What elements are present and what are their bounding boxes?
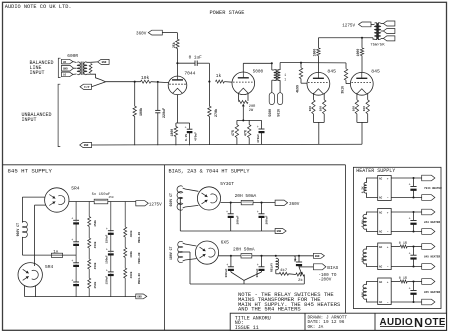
svg-text:3k16: 3k16 bbox=[340, 86, 344, 94]
capacitor 150uF bank2-3 bbox=[106, 269, 114, 276]
label 20H 50mA a bbox=[235, 193, 257, 199]
svg-text:+: + bbox=[409, 184, 411, 188]
node dot heater 1b bbox=[412, 196, 414, 198]
resistor 3k16 grid2 bbox=[344, 63, 347, 84]
heater transformer winding 2 bbox=[363, 212, 378, 232]
svg-text:4k99: 4k99 bbox=[295, 85, 299, 93]
svg-text:6.3V: 6.3V bbox=[361, 186, 364, 193]
wire heater top 1 bbox=[391, 177, 422, 179]
bracket unbalanced input bbox=[58, 84, 60, 146]
node dot heater 3b bbox=[412, 265, 414, 267]
label 400k bank2-2 bbox=[129, 251, 133, 258]
label 5616 bbox=[276, 109, 280, 117]
wire 6X5 out bbox=[219, 255, 241, 257]
resistor 25k anode load bbox=[176, 39, 179, 48]
connector tag GND input bbox=[98, 59, 110, 64]
capacitor 150uF bank2-1 bbox=[106, 228, 114, 235]
wire bias V down bbox=[243, 280, 245, 284]
wire bias rail bbox=[237, 119, 262, 121]
wire cathode rail bbox=[176, 122, 190, 124]
svg-text:-: - bbox=[387, 197, 389, 201]
label 25k bbox=[172, 42, 176, 48]
svg-text:845 HT SUPPLY: 845 HT SUPPLY bbox=[8, 168, 53, 175]
label 470uF bias bbox=[257, 134, 260, 143]
capacitor 0.1uF coupling bbox=[177, 56, 209, 66]
svg-text:1: 1 bbox=[284, 73, 286, 77]
valve 845 V3 bbox=[307, 72, 330, 95]
valve 7044 V1 bbox=[168, 76, 187, 95]
heater transformer winding 1 bbox=[364, 178, 378, 198]
svg-text:-200V: -200V bbox=[318, 277, 331, 282]
label heater volts 4 bbox=[361, 292, 364, 297]
svg-text:AC: AC bbox=[379, 177, 383, 180]
node dot heater 2b bbox=[412, 230, 414, 232]
hum pot 20R 2W bbox=[239, 93, 248, 104]
wire 5R4b top bbox=[34, 205, 36, 266]
resistor 1k grid stopper bbox=[216, 73, 225, 83]
connector tag balanced gnd bbox=[62, 65, 74, 71]
svg-text:100: 100 bbox=[352, 106, 355, 112]
wire pot to bus bbox=[303, 275, 305, 285]
wire winding ct down bbox=[180, 198, 182, 231]
svg-text:100uF: 100uF bbox=[236, 215, 239, 224]
node dot input/100k bbox=[134, 81, 136, 83]
svg-text:+: + bbox=[71, 279, 73, 283]
heater transformer winding 3 bbox=[363, 247, 378, 267]
bridge rectifier 2 bbox=[378, 209, 392, 235]
title block frame bbox=[230, 313, 446, 330]
svg-text:180V CT: 180V CT bbox=[169, 247, 173, 260]
capacitor 40uF bias bbox=[295, 256, 303, 267]
svg-text:+: + bbox=[71, 260, 73, 264]
connector tag heater 1 bottom bbox=[422, 195, 435, 201]
svg-text:PB01-88: PB01-88 bbox=[138, 252, 141, 263]
bridge rectifier 3 bbox=[378, 243, 392, 270]
wire I/P to node bbox=[92, 82, 106, 87]
resistor 1000 plate1 bbox=[317, 38, 320, 73]
svg-text:0 1uF: 0 1uF bbox=[189, 56, 203, 61]
svg-text:1000: 1000 bbox=[313, 49, 317, 57]
wire heater bottom 2 bbox=[391, 231, 422, 233]
wire mains down a bbox=[21, 197, 23, 223]
svg-text:660V CT: 660V CT bbox=[169, 193, 173, 206]
svg-text:AC: AC bbox=[379, 231, 383, 234]
node dot plate junction bbox=[176, 62, 178, 64]
svg-text:OK: JA: OK: JA bbox=[308, 325, 324, 330]
connector tag speaker 1 bbox=[381, 21, 395, 26]
svg-text:+: + bbox=[226, 264, 228, 268]
wire ground bus bbox=[92, 143, 363, 146]
wire grid bus 845 bbox=[280, 62, 346, 64]
rectifier 5R4 V5 bbox=[45, 188, 69, 212]
bracket balanced input bbox=[58, 58, 60, 77]
node dot heater 4b bbox=[412, 301, 414, 303]
connector tag 1275V supply bbox=[136, 201, 162, 208]
wire 5Y3 plate a bbox=[183, 188, 199, 191]
capacitor 100uF hta bbox=[226, 203, 234, 231]
label heater volts 1 bbox=[361, 186, 364, 193]
output transformer secondary bbox=[377, 23, 380, 40]
svg-text:+: + bbox=[409, 252, 411, 256]
connector tag heater 3 top bbox=[422, 244, 435, 250]
wire OPT primary bottom bbox=[373, 38, 375, 39]
filter column riser C1 bbox=[75, 202, 77, 297]
transformer winding 660V bbox=[177, 186, 183, 210]
svg-text:ISSUE 11: ISSUE 11 bbox=[235, 325, 259, 331]
svg-text:450k: 450k bbox=[93, 281, 97, 288]
svg-text:100k: 100k bbox=[139, 108, 144, 116]
transformer T1 primary bbox=[77, 62, 80, 75]
svg-text:+: + bbox=[409, 218, 411, 222]
valve 845 V4 bbox=[350, 72, 373, 95]
svg-text:AC: AC bbox=[379, 211, 383, 214]
svg-text:N: N bbox=[414, 316, 423, 330]
capacitor 150uF bank2-2 bbox=[106, 249, 114, 256]
fuse 1A bbox=[51, 251, 62, 258]
svg-text:1A: 1A bbox=[53, 251, 59, 255]
wire heater bottom 1 bbox=[391, 197, 422, 199]
label 5Y3GT bbox=[220, 181, 234, 187]
svg-text:5R4: 5R4 bbox=[45, 264, 54, 270]
title block text mid bbox=[308, 316, 348, 330]
wire 10k to grid bbox=[151, 81, 169, 84]
connector tag heater 2 top bbox=[422, 209, 435, 215]
capacitor 150uF bank1-3 bbox=[71, 260, 79, 267]
label 5600 bbox=[268, 109, 272, 117]
wire 4k7 to pot bbox=[289, 273, 296, 276]
svg-text:75W/5K: 75W/5K bbox=[370, 42, 385, 47]
resistor 450k bank1-3 bbox=[86, 259, 93, 269]
svg-text:1000: 1000 bbox=[356, 49, 360, 57]
svg-text:AC: AC bbox=[379, 197, 383, 200]
label 2A3 HEATER 2 bbox=[424, 221, 441, 224]
svg-text:AUDIO NOTE CO UK LTD.: AUDIO NOTE CO UK LTD. bbox=[5, 4, 72, 10]
node dot interstage top bbox=[271, 62, 273, 64]
wire HT bottom bus bbox=[25, 296, 136, 298]
resistor 0.1R 3 bbox=[399, 242, 407, 248]
label POWER STAGE bbox=[210, 10, 245, 16]
label heater volts 2 bbox=[361, 220, 364, 227]
transformer T1 secondary bbox=[84, 62, 87, 75]
svg-text:845: 845 bbox=[371, 69, 380, 75]
label 5000 bbox=[253, 69, 264, 74]
valve 2A3 V2 bbox=[232, 72, 255, 95]
svg-text:270k: 270k bbox=[214, 109, 219, 117]
wire grid1 bbox=[301, 82, 307, 84]
svg-text:GND: GND bbox=[137, 296, 142, 299]
wire heater top 4b bbox=[407, 281, 422, 283]
label 150uF bank2-3 bbox=[105, 276, 108, 285]
svg-text:PB01-88: PB01-88 bbox=[138, 273, 141, 284]
label 845 HT SUPPLY bbox=[8, 168, 53, 175]
wire ht gnd bus bbox=[180, 230, 275, 232]
svg-text:360V: 360V bbox=[136, 31, 147, 36]
label -200V bbox=[318, 277, 331, 282]
label BIAS 2A3 7044 HT SUPPLY bbox=[169, 169, 251, 175]
label 4k99 bbox=[295, 85, 299, 93]
svg-text:20H 50mA: 20H 50mA bbox=[233, 246, 255, 252]
svg-text:INPUT: INPUT bbox=[22, 117, 37, 123]
damping pill 5616 bbox=[278, 80, 283, 104]
label 1000 plate2 bbox=[356, 49, 360, 57]
relay coil bbox=[276, 258, 279, 269]
resistor 47R a bbox=[235, 120, 238, 144]
resistor 0.1R 4 bbox=[399, 277, 407, 283]
resistor 400k bank2-2 bbox=[122, 248, 129, 258]
svg-text:HEATER SUPPLY: HEATER SUPPLY bbox=[356, 168, 395, 174]
wire input line bbox=[106, 81, 141, 83]
svg-text:GND: GND bbox=[102, 61, 107, 64]
resistor 400k bank2-1 bbox=[122, 227, 129, 237]
svg-text:+: + bbox=[387, 211, 389, 214]
wire bias bottom bus bbox=[190, 283, 304, 285]
svg-text:AC: AC bbox=[379, 266, 383, 269]
svg-text:AC: AC bbox=[379, 301, 383, 304]
resistor 100 c1b bbox=[323, 93, 326, 123]
svg-text:RELAY: RELAY bbox=[271, 263, 274, 272]
bridge rectifier 1 bbox=[378, 176, 392, 201]
interstage transformer secondary bbox=[278, 63, 281, 81]
resistor 270k grid leak bbox=[208, 82, 211, 145]
wire plate V1 riser bbox=[176, 63, 178, 76]
svg-text:600R: 600R bbox=[67, 53, 78, 59]
connector tag GND bus bbox=[80, 142, 92, 147]
svg-text:47R: 47R bbox=[243, 130, 247, 136]
svg-text:360V: 360V bbox=[289, 202, 300, 207]
wire relay to 4k7 bbox=[276, 269, 279, 273]
label 845 V3 bbox=[327, 69, 336, 75]
resistor 100 c2b bbox=[366, 93, 369, 123]
label 150uF bank2-1 bbox=[105, 234, 108, 243]
wire 5Y3 out bbox=[221, 202, 242, 204]
connector tag speaker 2 bbox=[381, 29, 395, 34]
section divider vertical B/C bbox=[344, 165, 346, 313]
heater supply box bbox=[353, 167, 441, 308]
svg-text:+: + bbox=[387, 246, 389, 249]
capacitor 100uF bias a bbox=[226, 256, 234, 272]
label 3k16 bbox=[340, 86, 344, 94]
label 47R a bbox=[231, 130, 235, 136]
resistor 10k bbox=[141, 80, 151, 83]
svg-text:GND: GND bbox=[63, 67, 68, 70]
capacitor heater 4 bbox=[409, 282, 417, 303]
wire HT top bus b bbox=[108, 201, 136, 203]
label 5R4 V6 bbox=[45, 264, 54, 270]
title AUDIO NOTE CO UK LTD bbox=[5, 4, 72, 10]
transformer winding 180V bbox=[178, 241, 183, 262]
capacitor heater 2 bbox=[409, 212, 417, 232]
wire tag2 to transformer bbox=[74, 67, 77, 69]
resistor 100 c2a bbox=[355, 93, 358, 123]
svg-text:1k: 1k bbox=[216, 73, 222, 79]
svg-text:+: + bbox=[185, 127, 187, 131]
svg-text:1275V: 1275V bbox=[149, 202, 162, 207]
connector tag heater 4 bottom bbox=[422, 299, 435, 305]
resistor 450k bank1-4 bbox=[86, 278, 93, 288]
output transformer primary bbox=[375, 23, 378, 40]
svg-text:400k: 400k bbox=[129, 230, 133, 237]
label 20R 2W bbox=[249, 105, 256, 113]
svg-text:10V: 10V bbox=[361, 292, 364, 297]
wire cathode join V3 bbox=[313, 122, 324, 144]
transformer HT winding bbox=[22, 221, 27, 237]
wire HT top bus a bbox=[69, 201, 94, 203]
svg-text:POWER STAGE: POWER STAGE bbox=[210, 10, 245, 16]
svg-text:+: + bbox=[106, 269, 108, 273]
label 100uF htb bbox=[265, 215, 268, 224]
label 450k bank1-3 bbox=[93, 262, 97, 269]
node dot biascap bbox=[298, 255, 300, 257]
svg-text:5000: 5000 bbox=[253, 69, 264, 74]
svg-text:845 HEATER: 845 HEATER bbox=[424, 256, 441, 259]
svg-text:GND: GND bbox=[84, 144, 89, 147]
connector tag 1275V power bbox=[342, 22, 371, 29]
svg-text:LO: LO bbox=[63, 74, 67, 77]
filter column riser R2 bbox=[124, 202, 126, 297]
capacitor 150uF bank1-1 bbox=[71, 218, 79, 225]
resistor 4k7 bbox=[279, 268, 288, 275]
svg-text:+: + bbox=[387, 177, 389, 180]
resistor 10k label bbox=[141, 75, 150, 81]
capacitor 150uF bank1-2 bbox=[71, 239, 79, 246]
resistor 1000 plate2 bbox=[360, 38, 363, 73]
label partno bank2-3 bbox=[138, 273, 141, 284]
label 1000 plate1 bbox=[313, 49, 317, 57]
resistor 4k99 grid1 bbox=[299, 63, 302, 83]
wire 1275V to OPT bbox=[371, 23, 375, 25]
svg-text:25k: 25k bbox=[172, 42, 176, 48]
capacitor 100uF bias b bbox=[257, 256, 265, 272]
label heater volts 3 bbox=[361, 257, 364, 262]
svg-text:845: 845 bbox=[327, 69, 336, 75]
svg-text:BIAS, 2A3 & 7044 HT SUPPLY: BIAS, 2A3 & 7044 HT SUPPLY bbox=[169, 169, 251, 175]
svg-text:5600: 5600 bbox=[268, 109, 272, 117]
section divider vertical A/B bbox=[163, 165, 165, 330]
svg-text:100uF: 100uF bbox=[256, 268, 259, 277]
svg-text:5616: 5616 bbox=[276, 109, 280, 117]
wire heater top 4a bbox=[391, 281, 400, 283]
resistor 1800 cathode bbox=[174, 123, 177, 145]
connector tag GND ht bbox=[275, 229, 286, 234]
wire mains down b bbox=[21, 237, 23, 255]
node dot heater 2a bbox=[412, 211, 414, 213]
wire heater top 3a bbox=[391, 246, 400, 248]
svg-text:+: + bbox=[226, 211, 228, 215]
wire HT rail 845 bbox=[318, 37, 373, 39]
node dot grid node 2A3 bbox=[208, 81, 210, 83]
wire secondary bottom to switch bbox=[91, 74, 101, 80]
svg-text:5Y3GT: 5Y3GT bbox=[220, 181, 234, 187]
label 6X5 bbox=[221, 240, 230, 246]
svg-text:BIAS: BIAS bbox=[327, 265, 338, 271]
pot wiper arrow bbox=[242, 104, 245, 121]
svg-text:470uF: 470uF bbox=[257, 134, 260, 143]
svg-text:845 HEATER: 845 HEATER bbox=[424, 291, 441, 294]
label 1:1 bbox=[284, 73, 286, 82]
label 400k bank2-1 bbox=[129, 230, 133, 237]
wire cathode join V4 bbox=[357, 122, 368, 144]
label 75W/5K bbox=[370, 42, 385, 47]
filter column riser C3 bbox=[110, 202, 112, 297]
resistor input termination bbox=[87, 62, 92, 74]
svg-text:450k: 450k bbox=[93, 262, 97, 269]
label RELAY bbox=[271, 263, 274, 272]
label 100 c2b bbox=[363, 106, 366, 112]
note text bbox=[238, 291, 341, 312]
label 100 c1b bbox=[320, 106, 323, 112]
connector tag heater 1 top bbox=[422, 175, 435, 181]
svg-text:7044: 7044 bbox=[184, 71, 195, 77]
interstage transformer core bbox=[276, 69, 278, 81]
node dot cap2 bbox=[260, 255, 262, 257]
label 845 HEATER 3 bbox=[424, 256, 441, 259]
logo AUDIO NOTE bbox=[380, 316, 446, 330]
svg-text:2k: 2k bbox=[298, 278, 303, 283]
capacitor 150uF bank1-4 bbox=[71, 279, 79, 286]
svg-text:-: - bbox=[387, 301, 389, 305]
resistor 47R b bbox=[248, 120, 251, 144]
wire heater bottom 3 bbox=[391, 266, 422, 268]
wire bias V join bbox=[231, 272, 262, 280]
svg-text:10V: 10V bbox=[361, 257, 364, 262]
wire grid2 bbox=[346, 83, 350, 85]
node dot 5Y3 out bbox=[230, 202, 232, 204]
capacitor 470uF bias bbox=[257, 120, 265, 144]
svg-text:+: + bbox=[257, 211, 259, 215]
node dot heater 1a bbox=[412, 177, 414, 179]
wire 360V to plate resistor bbox=[162, 33, 177, 40]
svg-text:150uF: 150uF bbox=[105, 276, 108, 285]
label 270k bbox=[214, 109, 219, 117]
wire tag3 to transformer bbox=[73, 73, 77, 75]
wire secondary top to gnd tag bbox=[91, 61, 98, 63]
heater transformer winding 4 bbox=[363, 282, 378, 303]
svg-text:1800: 1800 bbox=[170, 129, 174, 137]
label 450k bank1-1 bbox=[93, 220, 97, 227]
svg-text:PB01-88: PB01-88 bbox=[138, 232, 141, 243]
interstage transformer primary bbox=[272, 63, 277, 80]
resistor 450k bank1-2 bbox=[86, 238, 93, 248]
connector tag I/P bbox=[80, 84, 92, 89]
svg-text:150uF: 150uF bbox=[105, 255, 108, 264]
wire plate V2 riser bbox=[242, 63, 244, 72]
wire plate bus to interstage bbox=[243, 62, 271, 64]
svg-text:I/P: I/P bbox=[84, 85, 90, 89]
filter column riser R1 bbox=[88, 202, 90, 297]
svg-text:+: + bbox=[257, 264, 259, 268]
label 100 c1a bbox=[309, 106, 312, 112]
label partno bank2-2 bbox=[138, 252, 141, 263]
node dot grid bus r1 bbox=[300, 62, 302, 64]
label 845 HEATER 4 bbox=[424, 291, 441, 294]
label 960V CT bbox=[16, 223, 20, 236]
svg-text:7044 HEATER: 7044 HEATER bbox=[424, 187, 442, 190]
label 1800 bbox=[170, 129, 174, 137]
svg-text:1: 1 bbox=[284, 78, 286, 82]
svg-text:100uF: 100uF bbox=[225, 268, 228, 277]
connector tag BIAS bbox=[313, 264, 338, 271]
connector tag balanced - bbox=[62, 72, 74, 77]
label partno bank2-1 bbox=[138, 232, 141, 243]
svg-text:2.5V: 2.5V bbox=[361, 220, 364, 227]
svg-text:AC: AC bbox=[379, 246, 383, 249]
wire 5R4b bottom pins bbox=[25, 286, 36, 297]
connector tag 360V supply bbox=[275, 200, 300, 207]
label 100 c2a bbox=[352, 106, 355, 112]
label 220uF bbox=[163, 108, 167, 118]
label HEATER SUPPLY bbox=[356, 168, 395, 174]
svg-text:5R4: 5R4 bbox=[71, 185, 80, 191]
